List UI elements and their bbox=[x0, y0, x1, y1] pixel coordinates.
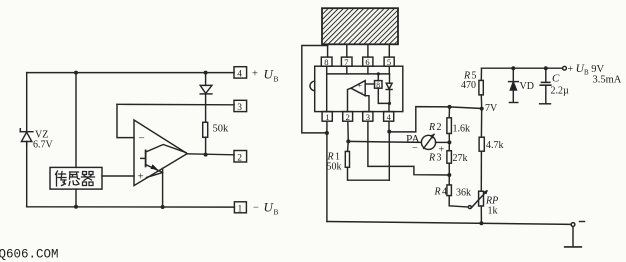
svg-text:VD: VD bbox=[520, 81, 534, 92]
svg-text:C: C bbox=[552, 73, 560, 85]
sensor box 传感器 bbox=[50, 167, 102, 189]
terminal 2 bbox=[234, 151, 247, 164]
node: C on top rail bbox=[544, 66, 548, 70]
svg-text:4: 4 bbox=[442, 187, 447, 198]
wire: feedback from minus input bbox=[117, 104, 134, 137]
node: top rail / sensor branch junction bbox=[74, 71, 78, 75]
wire: hatched block lead to pin 5 bbox=[388, 44, 390, 57]
pin 4 bbox=[384, 112, 394, 122]
wire: pin 3 to R3 bottom node bbox=[368, 121, 449, 175]
pin 1 bbox=[322, 112, 332, 122]
wire: +UB top rail of right circuit bbox=[482, 67, 563, 69]
wire: +UB top rail of left circuit bbox=[27, 72, 234, 74]
svg-text:50k: 50k bbox=[213, 124, 230, 135]
node: gain block on top bus bbox=[377, 72, 380, 75]
IC internal: pin 5 stub bbox=[388, 66, 390, 74]
node: top rail / diode branch junction bbox=[204, 71, 208, 75]
node: pin 1 / left rail junction bbox=[325, 131, 329, 135]
wire: R1 bottom jog to pin4 node column bbox=[348, 167, 390, 180]
IC internal: op-amp (points left) bbox=[351, 81, 365, 96]
wire: -UB bottom rail of left circuit bbox=[27, 206, 235, 208]
svg-text:2: 2 bbox=[437, 122, 442, 133]
node: RP bottom on rail bbox=[479, 221, 483, 225]
node: R3 / R4 junction bbox=[447, 173, 451, 177]
svg-text:1k: 1k bbox=[488, 206, 498, 217]
glyph 感 bbox=[69, 172, 80, 186]
sensor element (hatched block) bbox=[322, 8, 398, 44]
IC internal: left bus pin8 to pin1 bbox=[326, 66, 328, 111]
svg-text:R: R bbox=[428, 122, 435, 133]
label -UB bbox=[253, 200, 279, 217]
svg-text:36k: 36k bbox=[456, 188, 471, 199]
resistor R2 1.6k bbox=[447, 107, 452, 142]
IC internal: gain block 8 bbox=[375, 80, 383, 89]
svg-text:+: + bbox=[138, 171, 144, 183]
resistor 4.7k bbox=[479, 109, 484, 192]
svg-text:−: − bbox=[139, 133, 145, 145]
glyph 器 bbox=[82, 172, 95, 186]
svg-text:2.2µ: 2.2µ bbox=[551, 86, 570, 97]
wire: bottom rail of right circuit bbox=[327, 222, 571, 225]
svg-text:R: R bbox=[428, 153, 435, 164]
wire: left rail from pin-8 lead down the left side bbox=[302, 46, 328, 133]
node: op-amp output / 50k junction bbox=[204, 153, 208, 157]
node: R2 top bbox=[448, 105, 452, 109]
resistor R4 36k bbox=[447, 175, 452, 206]
IC internal: op-amp minus to pin 3 bbox=[365, 96, 369, 112]
pin 8 bbox=[321, 57, 332, 67]
terminal 4 bbox=[234, 67, 247, 80]
svg-text:3: 3 bbox=[366, 112, 370, 122]
wire: sensor bottom lead bbox=[75, 189, 77, 207]
wire: left rail lower segment bbox=[26, 142, 28, 207]
pin 5 bbox=[384, 57, 394, 67]
resistor 50k bbox=[203, 105, 208, 155]
node: pin 2 / R1 / meter junction bbox=[346, 139, 350, 143]
wire: pin4 node to 7V line bbox=[389, 107, 449, 132]
terminal: +UB circle bbox=[563, 66, 567, 70]
wire: meter to R2/R3 node bbox=[436, 141, 450, 143]
terminal 3 bbox=[234, 100, 247, 113]
node: pin 4 junction bbox=[387, 130, 391, 134]
IC internal: pin 6 stub bbox=[367, 66, 369, 74]
transistor Q1 inside op-amp bbox=[141, 145, 186, 173]
op-amp U1 bbox=[134, 120, 187, 186]
svg-text:B: B bbox=[274, 208, 279, 217]
label: minus at output bbox=[580, 221, 585, 223]
pin 3 bbox=[363, 112, 373, 122]
node: bottom rail / sensor branch junction bbox=[74, 205, 78, 209]
wire: op-amp output to terminal 2 bbox=[187, 154, 234, 155]
svg-text:3.5mA: 3.5mA bbox=[593, 75, 622, 86]
IC internal: wire op-amp to gain block bbox=[365, 83, 374, 85]
svg-text:50k: 50k bbox=[327, 162, 342, 173]
diode VD bbox=[509, 68, 519, 102]
svg-text:470: 470 bbox=[461, 80, 476, 91]
terminal 1 bbox=[234, 202, 246, 215]
wire: plus input internal link bbox=[147, 173, 163, 178]
IC internal: gain block top stub bbox=[377, 74, 379, 81]
svg-text:6.7V: 6.7V bbox=[33, 140, 54, 151]
wire: pin 2 to R1 top bbox=[347, 121, 350, 141]
wire: terminal 3 line bbox=[117, 103, 234, 106]
svg-text:1.6k: 1.6k bbox=[453, 124, 471, 135]
wire: hatched block lead to pin 7 bbox=[346, 44, 348, 57]
ground bbox=[565, 226, 582, 247]
wire: hatched block lead to pin 6 bbox=[367, 44, 369, 57]
node: R2 / R3 / meter junction bbox=[447, 140, 451, 144]
svg-text:4: 4 bbox=[387, 112, 392, 122]
node: diode bottom / pin 4 bbox=[388, 102, 391, 105]
node: bottom rail / emitter branch junction bbox=[161, 205, 165, 209]
capacitor C 2.2u bbox=[540, 68, 551, 104]
svg-text:+: + bbox=[252, 68, 258, 79]
IC internal: top bus bbox=[327, 73, 390, 75]
IC internal: pin 4 stub bbox=[388, 103, 390, 111]
wire: R4 bottom to RP wiper bbox=[449, 206, 468, 207]
svg-text:3: 3 bbox=[237, 103, 242, 113]
svg-text:4.7k: 4.7k bbox=[486, 140, 504, 151]
svg-text:27k: 27k bbox=[453, 153, 468, 164]
svg-text:−: − bbox=[412, 143, 418, 154]
zener diode VZ 6.7V bbox=[20, 129, 33, 146]
svg-text:−: − bbox=[359, 88, 364, 97]
svg-text:1: 1 bbox=[325, 112, 329, 122]
svg-text:Q606.COM: Q606.COM bbox=[0, 248, 59, 262]
resistor R1 50k bbox=[345, 141, 349, 167]
potentiometer RP 1k bbox=[471, 190, 488, 223]
wire: meter line from pin2 node bbox=[348, 141, 421, 142]
pin 6 bbox=[363, 57, 373, 67]
node: 7V junction bbox=[480, 107, 484, 111]
svg-text:B: B bbox=[274, 75, 279, 84]
svg-text:2: 2 bbox=[237, 153, 242, 163]
terminal: output circle on bottom rail bbox=[571, 223, 575, 227]
svg-text:−: − bbox=[253, 202, 259, 213]
IC internal: op-amp output to pin 2 bbox=[348, 88, 351, 111]
terminal: RP wiper circle bbox=[468, 206, 471, 209]
glyph 传 bbox=[56, 171, 67, 186]
resistor R3 27k bbox=[447, 142, 452, 175]
svg-text:R: R bbox=[434, 187, 441, 198]
resistor R5 470 bbox=[479, 68, 483, 108]
svg-text:1: 1 bbox=[238, 204, 243, 214]
IC internal: diode bbox=[386, 74, 392, 104]
wire: hatched block lead to pin 8 bbox=[327, 44, 329, 57]
meter PA bbox=[421, 134, 435, 150]
wire: left rail upper segment bbox=[26, 73, 28, 132]
node: VD on top rail bbox=[511, 66, 515, 70]
wire: 7V line to divider column bbox=[450, 107, 482, 109]
pin 7 bbox=[341, 57, 352, 67]
pin 2 bbox=[343, 112, 353, 122]
IC internal: pin 7 stub bbox=[346, 66, 348, 74]
IC internal: gain block bottom wire to diode bottom bbox=[378, 88, 389, 103]
IC body U2 bbox=[310, 66, 403, 111]
wire: pin 4 lead bbox=[388, 121, 390, 131]
label +UB bbox=[252, 67, 279, 84]
wire: pin4 node vertical bbox=[388, 132, 390, 181]
wire: sensor output to op-amp + input bbox=[102, 175, 134, 177]
diode D1 between +UB and terminal 3 line bbox=[200, 73, 212, 105]
svg-text:7V: 7V bbox=[485, 103, 498, 114]
svg-text:3: 3 bbox=[437, 153, 442, 164]
svg-text:2: 2 bbox=[346, 112, 350, 122]
svg-text:4: 4 bbox=[237, 70, 242, 80]
wire: sensor top feed bbox=[75, 73, 77, 168]
wire: emitter branch down to bottom rail bbox=[162, 168, 164, 207]
wire: pin 1 down to bottom rail bbox=[326, 121, 328, 221]
